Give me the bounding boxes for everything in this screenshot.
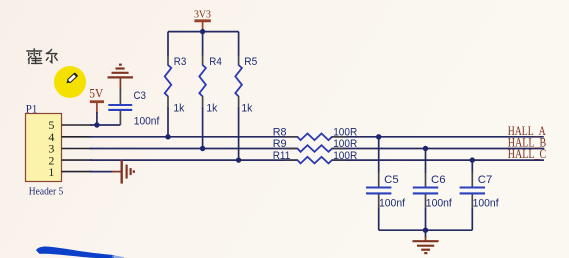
svg-text:100R: 100R bbox=[333, 150, 357, 162]
svg-text:100R: 100R bbox=[333, 138, 357, 150]
svg-text:100nf: 100nf bbox=[134, 116, 160, 128]
annotation marker swoosh bbox=[36, 247, 114, 258]
power port 5V bbox=[89, 85, 104, 125]
resistor R5 bbox=[235, 32, 257, 161]
annotation cursor: yellow circle with pencil bbox=[54, 66, 86, 98]
power port 3V3 bbox=[194, 9, 211, 32]
wire top rail 3V3 bbox=[168, 31, 239, 33]
resistor R4 bbox=[199, 32, 222, 149]
svg-text:100nf: 100nf bbox=[379, 198, 406, 210]
resistor R9 bbox=[273, 138, 358, 152]
svg-text:C5: C5 bbox=[384, 174, 399, 186]
svg-text:3V3: 3V3 bbox=[194, 9, 211, 21]
junction row A / C5 bbox=[376, 134, 381, 139]
junction row B / C6 bbox=[423, 146, 428, 151]
ground above C3 (inverted earth) bbox=[108, 65, 134, 78]
wire pin5 to 5V/C3 bbox=[90, 124, 120, 126]
junction R3 / row A bbox=[165, 134, 170, 139]
wire row A (pin4 to HALL_A) bbox=[90, 136, 544, 138]
capacitor C3 bbox=[108, 78, 160, 127]
svg-text:5V: 5V bbox=[89, 85, 104, 100]
尔 bbox=[46, 49, 51, 53]
junction row C / C7 bbox=[470, 157, 475, 162]
ground GND at pin1 (sideways) bbox=[112, 160, 134, 184]
svg-text:R11: R11 bbox=[273, 150, 291, 162]
resistor R8 bbox=[273, 127, 358, 141]
resistor R3 bbox=[165, 32, 187, 137]
svg-text:C3: C3 bbox=[134, 90, 147, 102]
svg-text:1: 1 bbox=[48, 165, 54, 179]
junction pin5/5V bbox=[94, 122, 99, 127]
wire bottom rail bbox=[379, 229, 473, 231]
svg-text:R5: R5 bbox=[244, 56, 257, 68]
ground GND bottom (earth) bbox=[413, 230, 439, 253]
svg-text:1k: 1k bbox=[206, 103, 217, 115]
wire row C (pin2 to HALL_C) bbox=[90, 159, 544, 161]
svg-text:100nf: 100nf bbox=[473, 198, 500, 210]
svg-text:100R: 100R bbox=[333, 127, 357, 139]
capacitor C5 bbox=[366, 137, 406, 230]
svg-text:R9: R9 bbox=[273, 138, 287, 150]
connector P1 body bbox=[26, 114, 62, 182]
wire row B (pin3 to HALL_B) bbox=[90, 148, 544, 150]
svg-text:1k: 1k bbox=[241, 103, 252, 115]
junction R4 / row B bbox=[200, 146, 205, 151]
junction R5 / row C bbox=[236, 157, 241, 162]
svg-text:100nf: 100nf bbox=[426, 198, 453, 210]
svg-text:C6: C6 bbox=[431, 174, 446, 186]
junction 3V3 rail bbox=[200, 29, 205, 34]
capacitor C7 bbox=[460, 160, 500, 230]
霍 bbox=[27, 50, 42, 52]
svg-text:R3: R3 bbox=[174, 56, 187, 68]
svg-text:Header 5: Header 5 bbox=[29, 186, 64, 198]
text label 霍尔 (Hall) bbox=[27, 49, 57, 64]
svg-text:R4: R4 bbox=[209, 56, 222, 68]
junction bottom rail / GND bbox=[423, 228, 428, 233]
svg-text:1k: 1k bbox=[173, 103, 184, 115]
svg-text:C7: C7 bbox=[478, 174, 493, 186]
capacitor C6 bbox=[413, 149, 453, 231]
svg-text:HALL_C: HALL_C bbox=[508, 147, 547, 161]
svg-text:R8: R8 bbox=[273, 127, 287, 139]
wire pin1 to ground bbox=[90, 171, 113, 173]
pin stubs of P1 bbox=[62, 125, 93, 172]
resistor R11 bbox=[273, 150, 358, 164]
